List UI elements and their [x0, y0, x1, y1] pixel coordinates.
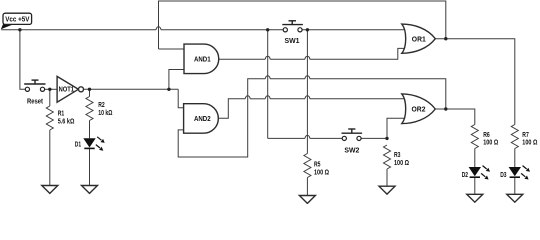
- wire: Reset row to NOT1 and AND junction: [45, 88, 179, 90]
- ground under R3: [379, 186, 395, 194]
- svg-text:10 kΩ: 10 kΩ: [98, 110, 113, 117]
- svg-text:D2: D2: [462, 172, 468, 179]
- resistor R6: [471, 125, 498, 149]
- svg-text:AND2: AND2: [194, 116, 211, 123]
- wire: Vcc rail y=29.8: [1, 27, 405, 30]
- wire: SW2 node up to OR2 bottom input: [387, 118, 405, 138]
- svg-text:NOT1: NOT1: [59, 87, 74, 94]
- svg-text:SW1: SW1: [285, 38, 300, 45]
- svg-text:100 Ω: 100 Ω: [314, 169, 329, 176]
- resistor R2: [86, 97, 113, 121]
- resistor R1: [46, 106, 74, 130]
- svg-text:AND1: AND1: [194, 56, 211, 63]
- pushbutton SW2: [342, 129, 363, 155]
- ground under D1: [82, 186, 98, 194]
- svg-text:R6: R6: [483, 132, 490, 139]
- wire: down to AND2 top input: [178, 89, 183, 108]
- junction node AND1 input branch: [167, 88, 170, 91]
- wire: top feedback line OR1 output to AND1 input: [159, 1, 446, 49]
- junction node Reset/R1: [48, 88, 51, 91]
- wire: SW1 right branch down to R5: [306, 30, 308, 154]
- LED D2: [462, 166, 490, 180]
- pushbutton Reset: [24, 80, 45, 106]
- LED D1: [75, 137, 105, 151]
- wire: OR2 output to R6: [435, 109, 475, 125]
- and gate AND2: [184, 104, 219, 134]
- resistor R3: [384, 145, 410, 169]
- junction node OR2 output: [444, 107, 447, 110]
- ground under D2: [467, 194, 483, 202]
- wire: AND1 top input from feedback: [159, 48, 185, 50]
- svg-text:5.6 kΩ: 5.6 kΩ: [58, 119, 75, 126]
- wire: R2 / D1 chain: [89, 89, 91, 185]
- svg-text:OR2: OR2: [412, 106, 426, 113]
- wire: AND1 output to OR1 bottom input: [219, 48, 405, 59]
- svg-text:R1: R1: [58, 111, 65, 118]
- resistor R5: [304, 154, 329, 178]
- svg-text:Vcc +5V: Vcc +5V: [5, 17, 29, 24]
- wire: OR1 output to R7: [435, 39, 515, 125]
- ground under R5: [299, 196, 315, 204]
- junction node SW2/R3: [385, 137, 388, 140]
- wire: R7 to D3 to ground: [514, 149, 516, 195]
- junction node SW1 left: [266, 28, 269, 31]
- svg-text:Reset: Reset: [27, 99, 44, 106]
- resistor R7: [511, 125, 537, 149]
- svg-text:D1: D1: [75, 141, 81, 148]
- wire: R1 chain: [49, 89, 51, 185]
- svg-text:100 Ω: 100 Ω: [394, 160, 409, 167]
- junction node SW1 right: [306, 28, 309, 31]
- svg-text:100 Ω: 100 Ω: [483, 140, 498, 147]
- wire: R5 to ground: [306, 178, 308, 196]
- svg-text:R2: R2: [98, 102, 105, 109]
- svg-text:OR1: OR1: [412, 36, 426, 43]
- junction node NOT1 out/R2: [88, 88, 91, 91]
- svg-text:R7: R7: [522, 132, 529, 139]
- svg-text:100 Ω: 100 Ω: [522, 140, 537, 147]
- and gate AND1: [184, 44, 219, 74]
- junction node OR1 output: [444, 37, 447, 40]
- wire: R3 to ground: [386, 169, 388, 186]
- ground under D3: [507, 194, 523, 202]
- Vcc +5V callout: [1, 13, 32, 29]
- not gate NOT1: [57, 76, 83, 102]
- wire: SW1 left branch down to SW2 row: [267, 30, 269, 139]
- wire: R6 to D2 to ground: [474, 149, 476, 195]
- wire: SW2 row: [268, 135, 387, 138]
- svg-text:SW2: SW2: [344, 148, 359, 155]
- LED D3: [500, 166, 530, 180]
- wire: branch up to AND1 bottom input: [169, 70, 184, 90]
- svg-text:R3: R3: [394, 152, 401, 159]
- pushbutton SW1: [282, 21, 303, 45]
- or gate OR1: [402, 24, 436, 53]
- junction node Vcc/Reset: [18, 28, 21, 31]
- svg-text:D3: D3: [500, 172, 506, 179]
- svg-text:R5: R5: [314, 161, 321, 168]
- ground under R1: [42, 186, 58, 194]
- or gate OR2: [402, 94, 436, 124]
- wire: AND2 output to OR2 top input: [219, 96, 405, 119]
- wire: OR2 feedback to AND2 bottom input: [178, 76, 446, 157]
- wire: Vcc to Reset switch: [20, 30, 25, 90]
